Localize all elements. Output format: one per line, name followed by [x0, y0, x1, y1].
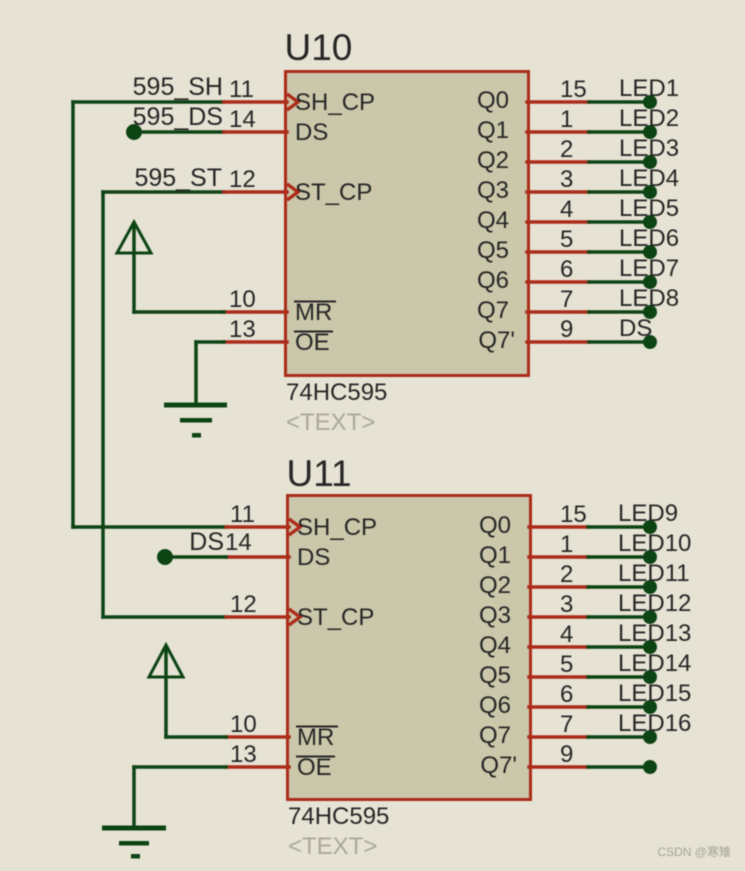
label net DS (U11): [189, 528, 224, 556]
svg-text:Q7: Q7: [477, 297, 509, 324]
U11 pin name OE (active low): [296, 754, 335, 781]
U10 pin name Q4: [477, 207, 509, 234]
svg-text:10: 10: [230, 711, 257, 738]
svg-text:Q0: Q0: [479, 512, 511, 539]
ground symbol (U11 OE): [102, 826, 166, 859]
pin number 4 (U10 right): [560, 196, 573, 223]
U10 pin name Q0: [477, 87, 509, 114]
svg-text:Q7': Q7': [480, 752, 517, 779]
pin number 5 (U10 right): [560, 226, 573, 253]
IC U11 value 74HC595: [288, 803, 389, 830]
svg-text:5: 5: [560, 651, 573, 678]
IC U11 &lt;TEXT&gt; placeholder: [288, 833, 377, 860]
pin number 3 (U10 right): [560, 166, 573, 193]
label net LED2: [619, 105, 679, 132]
U11 pin name Q1: [479, 542, 511, 569]
svg-text:11: 11: [229, 76, 254, 103]
svg-text:Q7': Q7': [478, 327, 515, 354]
U11 pin name ST_CP: [297, 604, 374, 631]
U11 pin name MR (active low): [296, 724, 338, 751]
svg-text:DS: DS: [619, 315, 652, 342]
pin number 15 (U10 right): [560, 76, 587, 103]
svg-text:Q5: Q5: [477, 237, 509, 264]
node terminal dot (LED9): [643, 520, 657, 534]
pin number 13 (U11): [230, 741, 257, 768]
svg-text:4: 4: [560, 196, 573, 223]
node 595_DS terminal dot (U10): [126, 124, 142, 140]
pin number 10 (U10 left): [229, 286, 256, 313]
pin 11 stub (U11, y=527): [226, 519, 300, 535]
wire U11 Q7' to Q7-prime net: [588, 765, 650, 769]
U10 pin name Q1: [477, 117, 509, 144]
svg-text:Q6: Q6: [479, 692, 511, 719]
svg-text:DS: DS: [295, 119, 328, 146]
node terminal dot (LED13): [643, 640, 657, 654]
svg-text:OE: OE: [295, 329, 330, 356]
U10 pin name OE (active low): [294, 329, 333, 356]
IC U11 reference designator: [287, 453, 352, 494]
U11 pin name Q6: [479, 692, 511, 719]
U11 pin name Q0: [479, 512, 511, 539]
svg-text:LED14: LED14: [618, 650, 691, 677]
pin number 5 (U11 right): [560, 651, 573, 678]
svg-text:CSDN @寒雉: CSDN @寒雉: [657, 844, 731, 859]
wire net 595_DS to U10 DS: [134, 130, 224, 134]
svg-text:74HC595: 74HC595: [286, 379, 387, 406]
pin 4 stub (U10 Q4): [527, 220, 589, 224]
U10 pin name ST_CP: [295, 179, 372, 206]
pin number 7 (U11 right): [560, 711, 573, 738]
svg-text:DS: DS: [297, 544, 330, 571]
pin 10 stub (U10, y=312): [224, 310, 287, 314]
pin number 1 (U11 right): [560, 531, 573, 558]
svg-text:13: 13: [229, 316, 256, 343]
svg-text:14: 14: [229, 106, 256, 133]
pin 15 stub (U10 Q0): [527, 100, 589, 104]
pin 3 stub (U11 Q3): [529, 615, 588, 619]
node terminal dot (LED15): [643, 700, 657, 714]
svg-text:MR: MR: [295, 299, 332, 326]
svg-text:Q2: Q2: [477, 147, 509, 174]
node terminal dot LED3: [643, 155, 657, 169]
pin 13 stub (U10, y=342): [224, 340, 287, 344]
svg-text:DS: DS: [189, 528, 224, 556]
pin number 4 (U11 right): [560, 621, 573, 648]
pin 5 stub (U11 Q5): [529, 675, 588, 679]
label net DS: [619, 315, 652, 342]
pin number 13 (U10 left): [229, 316, 256, 343]
svg-text:12: 12: [230, 591, 257, 618]
svg-text:4: 4: [560, 621, 573, 648]
IC U10 body: [286, 72, 529, 376]
svg-text:3: 3: [560, 591, 573, 618]
label net LED14: [618, 650, 691, 677]
svg-text:6: 6: [560, 256, 573, 283]
wire net 595_ST horizontal to U10 ST_CP: [103, 190, 224, 194]
svg-text:LED8: LED8: [619, 285, 679, 312]
svg-text:LED1: LED1: [619, 75, 679, 102]
pin 9 stub (U10 Q7'): [527, 340, 589, 344]
svg-text:5: 5: [560, 226, 573, 253]
node terminal dot (Q7-prime net): [643, 760, 657, 774]
pin 7 stub (U10 Q7): [527, 310, 589, 314]
svg-text:Q1: Q1: [477, 117, 509, 144]
svg-text:Q4: Q4: [477, 207, 509, 234]
svg-text:14: 14: [225, 529, 252, 556]
ground symbol (U10 OE): [164, 403, 227, 438]
svg-text:Q7: Q7: [479, 722, 511, 749]
pin number 2 (U11 right): [560, 561, 573, 588]
svg-text:74HC595: 74HC595: [288, 803, 389, 830]
pin 9 stub (U11 Q7'): [529, 765, 588, 769]
label net LED5: [619, 195, 679, 222]
pin number 14 (U11): [225, 529, 252, 556]
svg-text:15: 15: [560, 501, 587, 528]
svg-text:LED10: LED10: [618, 530, 691, 557]
wire Q2 to LED3: [589, 160, 650, 164]
svg-text:OE: OE: [297, 754, 332, 781]
wire Q0 to LED1: [589, 100, 650, 104]
svg-text:6: 6: [560, 681, 573, 708]
svg-text:11: 11: [230, 501, 255, 528]
node terminal dot LED8: [643, 305, 657, 319]
U11 pin name Q7': [480, 752, 517, 779]
IC U10 &lt;TEXT&gt; placeholder: [286, 409, 375, 436]
svg-text:10: 10: [229, 286, 256, 313]
svg-text:Q0: Q0: [477, 87, 509, 114]
wire U11 Q5 to LED14: [588, 675, 650, 679]
pin number 9 (U10 right): [560, 316, 573, 343]
node terminal dot (LED10): [643, 550, 657, 564]
node terminal dot DS: [643, 335, 657, 349]
wire U11 Q3 to LED12: [588, 615, 650, 619]
wire power arrow to U11 MR: [166, 735, 226, 739]
U11 pin name Q3: [479, 602, 511, 629]
pin number 6 (U10 right): [560, 256, 573, 283]
node terminal dot (LED12): [643, 610, 657, 624]
pin number 15 (U11 right): [560, 501, 587, 528]
pin 12 stub (U11, y=617): [226, 609, 300, 625]
U10 pin name MR (active low): [294, 299, 336, 326]
node terminal dot (LED11): [643, 580, 657, 594]
svg-text:SH_CP: SH_CP: [295, 89, 375, 116]
label net LED9: [618, 500, 678, 527]
pin 14 stub (U10, y=132): [224, 130, 287, 134]
wire U10 OE to ground: [196, 342, 224, 404]
svg-text:ST_CP: ST_CP: [297, 604, 374, 631]
pin number 12 (U10 left): [229, 166, 256, 193]
node terminal dot (LED16): [643, 730, 657, 744]
svg-text:15: 15: [560, 76, 587, 103]
svg-text:9: 9: [560, 741, 573, 768]
wire Q6 to LED7: [589, 280, 650, 284]
wire power arrow to U10 MR: [134, 310, 224, 314]
node terminal dot LED7: [643, 275, 657, 289]
U11 pin name Q5: [479, 662, 511, 689]
node terminal dot LED2: [643, 125, 657, 139]
svg-text:595_ST: 595_ST: [134, 164, 222, 192]
label net 595_ST: [134, 164, 222, 192]
pin 5 stub (U10 Q5): [527, 250, 589, 254]
pin 2 stub (U10 Q2): [527, 160, 589, 164]
node terminal dot (LED14): [643, 670, 657, 684]
svg-text:<TEXT>: <TEXT>: [288, 833, 377, 860]
svg-text:LED9: LED9: [618, 500, 678, 527]
svg-text:LED7: LED7: [619, 255, 679, 282]
label net LED6: [619, 225, 679, 252]
svg-text:LED16: LED16: [618, 710, 691, 737]
wire U11 Q7 to LED16: [588, 735, 650, 739]
wire net 595_SH horizontal to U11 SH_CP: [73, 525, 226, 529]
svg-text:LED13: LED13: [618, 620, 691, 647]
wire Q3 to LED4: [589, 190, 650, 194]
pin number 12 (U11): [230, 591, 257, 618]
svg-text:SH_CP: SH_CP: [297, 514, 377, 541]
U10 pin name Q7: [477, 297, 509, 324]
label net LED15: [618, 680, 691, 707]
svg-text:LED3: LED3: [619, 135, 679, 162]
svg-text:3: 3: [560, 166, 573, 193]
pin number 7 (U10 right): [560, 286, 573, 313]
pin number 9 (U11 right): [560, 741, 573, 768]
pin number 11 (U11): [230, 501, 255, 528]
wire net 595_SH vertical trunk: [71, 102, 75, 527]
svg-text:LED4: LED4: [619, 165, 679, 192]
U10 pin name DS: [295, 119, 328, 146]
svg-text:Q4: Q4: [479, 632, 511, 659]
pin number 1 (U10 right): [560, 106, 573, 133]
pin 6 stub (U10 Q6): [527, 280, 589, 284]
U11 pin name Q4: [479, 632, 511, 659]
svg-text:2: 2: [560, 136, 573, 163]
U10 pin name Q7': [478, 327, 515, 354]
IC U11 body: [288, 496, 531, 800]
pin 13 stub (U11, y=767): [226, 765, 289, 769]
wire Q4 to LED5: [589, 220, 650, 224]
U10 pin name Q3: [477, 177, 509, 204]
svg-text:7: 7: [560, 711, 573, 738]
pin 15 stub (U11 Q0): [529, 525, 588, 529]
pin 4 stub (U11 Q4): [529, 645, 588, 649]
wire U11 Q6 to LED15: [588, 705, 650, 709]
svg-text:U10: U10: [285, 27, 353, 68]
svg-text:LED2: LED2: [619, 105, 679, 132]
wire net 595_ST horizontal to U11 ST_CP: [103, 615, 226, 619]
svg-text:<TEXT>: <TEXT>: [286, 409, 375, 436]
svg-text:Q5: Q5: [479, 662, 511, 689]
svg-text:U11: U11: [287, 453, 352, 494]
pin number 10 (U11): [230, 711, 257, 738]
node terminal dot LED5: [643, 215, 657, 229]
pin 14 stub (U11, y=557): [226, 555, 289, 559]
U11 pin name Q2: [479, 572, 511, 599]
node terminal dot LED1: [643, 95, 657, 109]
node terminal dot LED4: [643, 185, 657, 199]
pin number 14 (U10 left): [229, 106, 256, 133]
watermark CSDN: [657, 844, 731, 859]
label net LED10: [618, 530, 691, 557]
label net LED13: [618, 620, 691, 647]
pin 10 stub (U11, y=737): [226, 735, 289, 739]
wire U11 Q0 to LED9: [588, 525, 650, 529]
wire Q1 to LED2: [589, 130, 650, 134]
node DS terminal dot (U11): [157, 549, 173, 565]
svg-text:MR: MR: [297, 724, 334, 751]
svg-text:ST_CP: ST_CP: [295, 179, 372, 206]
pin 2 stub (U11 Q2): [529, 585, 588, 589]
power terminal (U11 MR pull-up arrow): [149, 645, 183, 737]
pin 12 stub (U10, y=192): [224, 184, 298, 200]
pin 7 stub (U11 Q7): [529, 735, 588, 739]
wire net 595_SH horizontal to U10 SH_CP: [73, 100, 224, 104]
svg-text:Q6: Q6: [477, 267, 509, 294]
U11 pin name DS: [297, 544, 330, 571]
U11 pin name Q7: [479, 722, 511, 749]
svg-text:Q3: Q3: [479, 602, 511, 629]
label net LED1: [619, 75, 679, 102]
wire U11 OE to ground: [134, 767, 226, 827]
pin 3 stub (U10 Q3): [527, 190, 589, 194]
label net LED12: [618, 590, 691, 617]
svg-text:Q2: Q2: [479, 572, 511, 599]
IC U10 reference designator: [285, 27, 353, 68]
svg-text:2: 2: [560, 561, 573, 588]
wire U11 Q4 to LED13: [588, 645, 650, 649]
svg-text:LED15: LED15: [618, 680, 691, 707]
power terminal (U10 MR pull-up arrow): [117, 222, 151, 312]
U10 pin name SH_CP: [295, 89, 375, 116]
pin number 2 (U10 right): [560, 136, 573, 163]
pin number 3 (U11 right): [560, 591, 573, 618]
svg-text:LED12: LED12: [618, 590, 691, 617]
pin 1 stub (U10 Q1): [527, 130, 589, 134]
wire Q7' to DS: [589, 340, 650, 344]
wire Q5 to LED6: [589, 250, 650, 254]
label net LED8: [619, 285, 679, 312]
pin number 11 (U10 left): [229, 76, 254, 103]
svg-text:LED6: LED6: [619, 225, 679, 252]
label net LED4: [619, 165, 679, 192]
U10 pin name Q6: [477, 267, 509, 294]
pin 1 stub (U11 Q1): [529, 555, 588, 559]
svg-text:13: 13: [230, 741, 257, 768]
U11 pin name SH_CP: [297, 514, 377, 541]
label net LED3: [619, 135, 679, 162]
label net 595_DS: [133, 103, 223, 131]
svg-text:1: 1: [560, 531, 573, 558]
svg-text:12: 12: [229, 166, 256, 193]
wire Q7 to LED8: [589, 310, 650, 314]
label net LED11: [618, 560, 690, 587]
svg-text:LED11: LED11: [618, 560, 690, 587]
svg-text:7: 7: [560, 286, 573, 313]
label net LED7: [619, 255, 679, 282]
svg-text:9: 9: [560, 316, 573, 343]
wire net 595_ST vertical trunk: [101, 192, 105, 617]
pin 11 stub (U10, y=102): [224, 94, 298, 110]
svg-text:1: 1: [560, 106, 573, 133]
svg-text:Q1: Q1: [479, 542, 511, 569]
wire U11 Q1 to LED10: [588, 555, 650, 559]
wire U11 Q2 to LED11: [588, 585, 650, 589]
label net LED16: [618, 710, 691, 737]
svg-text:595_DS: 595_DS: [133, 103, 223, 131]
svg-text:595_SH: 595_SH: [133, 73, 223, 101]
label net 595_SH: [133, 73, 223, 101]
pin number 6 (U11 right): [560, 681, 573, 708]
U10 pin name Q2: [477, 147, 509, 174]
pin 6 stub (U11 Q6): [529, 705, 588, 709]
wire DS dot to U11 DS pin: [165, 555, 226, 559]
svg-text:Q3: Q3: [477, 177, 509, 204]
node terminal dot LED6: [643, 245, 657, 259]
U10 pin name Q5: [477, 237, 509, 264]
IC U10 value 74HC595: [286, 379, 387, 406]
svg-text:LED5: LED5: [619, 195, 679, 222]
